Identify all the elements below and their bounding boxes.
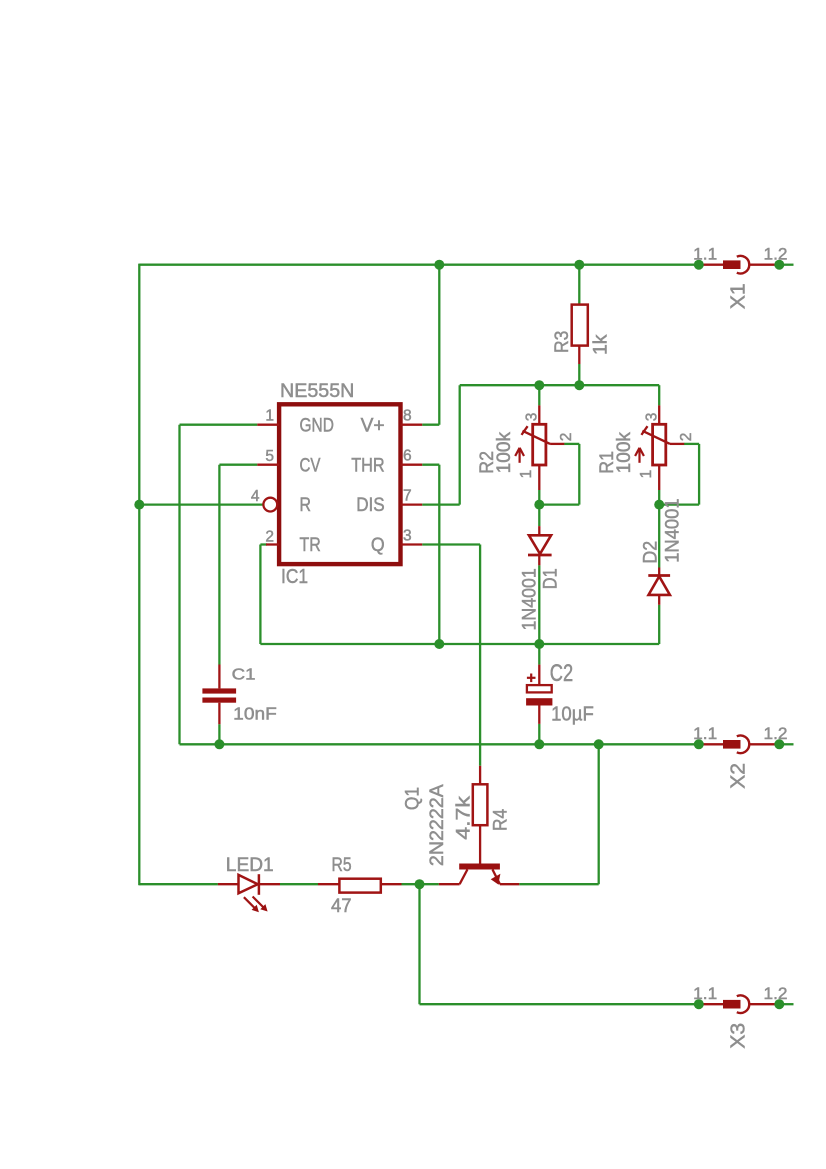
junction ground row / emitter riser bbox=[594, 739, 604, 749]
wire IC pin6 THR down bbox=[422, 464, 439, 466]
svg-text:1: 1 bbox=[265, 408, 274, 425]
svg-text:R3: R3 bbox=[551, 331, 573, 353]
junction ground row / C2 bbox=[534, 739, 544, 749]
svg-text:THR: THR bbox=[351, 454, 385, 476]
svg-text:4.7k: 4.7k bbox=[453, 796, 475, 840]
wire C2 bottom bbox=[538, 724, 540, 744]
svg-text:X1: X1 bbox=[727, 283, 750, 309]
potentiometer R1 body bbox=[653, 424, 666, 465]
svg-text:R: R bbox=[300, 494, 312, 516]
svg-text:3: 3 bbox=[643, 413, 660, 422]
svg-text:C1: C1 bbox=[232, 667, 256, 684]
wire IC pin1 GND to ground rail bbox=[180, 424, 258, 426]
transistor Q1 base bar bbox=[459, 864, 500, 870]
junction TR row / D1-C2 bbox=[534, 639, 544, 649]
svg-text:CV: CV bbox=[300, 454, 321, 476]
junction R3 bottom / R2 pin3 bbox=[534, 380, 544, 390]
wire LED row left bbox=[139, 883, 218, 885]
IC1 pin 1 stub bbox=[257, 424, 279, 426]
Q1 emitter arrow bbox=[491, 874, 501, 885]
C2 bottom plate bbox=[526, 698, 552, 705]
IC1 pin 6 stub bbox=[401, 464, 423, 466]
R4 bottom pin to Q1 base bbox=[479, 825, 481, 863]
X1 junction 1.2 bbox=[774, 260, 784, 270]
svg-text:10µF: 10µF bbox=[551, 704, 594, 726]
capacitor C1 top plate bbox=[202, 688, 236, 693]
svg-text:1.1: 1.1 bbox=[693, 245, 717, 264]
svg-text:NE555N: NE555N bbox=[280, 380, 354, 402]
svg-text:8: 8 bbox=[403, 408, 412, 425]
R2 pin2 stub bbox=[550, 443, 564, 445]
LED1 cathode stub bbox=[259, 883, 280, 885]
wire R3 top bbox=[578, 265, 580, 305]
X3 junction 1.2 bbox=[774, 999, 784, 1009]
X2 pin 1.2 wire bbox=[749, 743, 775, 745]
svg-text:2N2222A: 2N2222A bbox=[426, 784, 448, 866]
X2 wire tail bbox=[784, 743, 794, 745]
wire IC pin7 DIS to junction row bbox=[422, 503, 460, 505]
Q1 emitter lead bbox=[493, 870, 500, 885]
X3 pin pad bbox=[723, 1000, 741, 1009]
wire ground row bbox=[180, 743, 699, 745]
svg-text:TR: TR bbox=[300, 534, 321, 556]
svg-text:1k: 1k bbox=[590, 334, 612, 355]
LED1 emission arrow 1 bbox=[244, 897, 255, 908]
svg-text:R5: R5 bbox=[332, 854, 352, 876]
wire R2 pin1 to junction bbox=[538, 490, 540, 505]
D2 cathode stub bbox=[658, 568, 660, 576]
junction left rail / pin4 R bbox=[134, 500, 144, 510]
svg-text:C2: C2 bbox=[550, 660, 573, 687]
svg-text:6: 6 bbox=[403, 448, 412, 465]
X1 pin 1.2 wire bbox=[749, 264, 775, 266]
X1 wire tail bbox=[784, 264, 794, 266]
svg-text:7: 7 bbox=[403, 488, 412, 505]
wire D2 anode to TR row bbox=[658, 605, 660, 644]
svg-text:47: 47 bbox=[331, 895, 352, 917]
diode D1 triangle bbox=[529, 535, 551, 554]
junction TR row / THR riser bbox=[434, 639, 444, 649]
wire R1 pin2 loop bbox=[684, 443, 699, 445]
wire node to X3 row bbox=[418, 884, 420, 1004]
svg-text:X3: X3 bbox=[727, 1023, 750, 1049]
R2 pin3 stub bbox=[538, 405, 540, 424]
svg-text:2: 2 bbox=[558, 433, 575, 442]
diode D2 triangle bbox=[649, 576, 670, 595]
connector X1 pin 1.1 wire bbox=[703, 264, 723, 266]
svg-text:Q: Q bbox=[371, 534, 385, 556]
wire IC pin8 to top rail bbox=[422, 424, 439, 426]
wire D2 cathode bbox=[658, 505, 660, 568]
wire D1 anode bbox=[538, 505, 540, 526]
resistor R5 body bbox=[339, 879, 380, 893]
LED1 emission arrow 2 bbox=[253, 897, 264, 908]
svg-text:10nF: 10nF bbox=[233, 703, 277, 723]
C1 bottom pin stub bbox=[218, 703, 220, 725]
D1 cathode stub bbox=[538, 555, 540, 565]
C2 top plate outline bbox=[527, 685, 552, 692]
wire R2 pin2 loop bbox=[564, 443, 579, 445]
wire R1 pin3 bbox=[658, 385, 660, 405]
IC1 pin 4 inversion bubble bbox=[263, 498, 277, 512]
wire R3 bottom bbox=[578, 364, 580, 385]
C2 top pin stub bbox=[538, 665, 540, 686]
junction node R5 / Q1 / X3 drop bbox=[415, 879, 425, 889]
svg-text:1: 1 bbox=[638, 470, 655, 479]
svg-text:5: 5 bbox=[265, 448, 274, 465]
svg-text:1.1: 1.1 bbox=[693, 984, 717, 1003]
R1 pin1 stub bbox=[658, 465, 660, 490]
svg-text:GND: GND bbox=[300, 414, 334, 436]
svg-text:4: 4 bbox=[251, 488, 260, 505]
connector X3 pin 1.1 wire bbox=[703, 1003, 723, 1005]
svg-text:V+: V+ bbox=[361, 414, 385, 436]
wire top supply rail bbox=[139, 264, 699, 266]
R2 trim arrow bbox=[518, 448, 520, 463]
svg-text:1.2: 1.2 bbox=[764, 724, 788, 743]
svg-text:1.1: 1.1 bbox=[693, 724, 717, 743]
C2 bottom pin stub bbox=[538, 706, 540, 724]
wire emitter to X2 net bbox=[519, 883, 599, 885]
LED1 anode stub bbox=[218, 883, 239, 885]
svg-text:D2: D2 bbox=[639, 541, 661, 564]
junction R2 wiper / D1 anode bbox=[534, 500, 544, 510]
X3 pin 1.2 wire bbox=[749, 1003, 775, 1005]
wire D1 cathode to TR row bbox=[538, 565, 540, 644]
svg-text:3: 3 bbox=[403, 528, 412, 545]
svg-text:X2: X2 bbox=[727, 763, 750, 789]
svg-text:D1: D1 bbox=[540, 568, 562, 589]
C1 top pin stub bbox=[218, 665, 220, 689]
X2 socket arc bbox=[737, 736, 749, 754]
resistor R3 body bbox=[572, 305, 588, 346]
R3 pin stub bbox=[578, 346, 580, 364]
wire junction row below R3 bbox=[460, 384, 660, 386]
junction ground row / C1 bbox=[214, 739, 224, 749]
wire TR row bbox=[260, 643, 659, 645]
svg-text:LED1: LED1 bbox=[226, 854, 274, 876]
X1 junction 1.1 bbox=[694, 260, 704, 270]
svg-text:100k: 100k bbox=[493, 432, 515, 474]
D2 cathode bar bbox=[648, 574, 670, 577]
wire LED to R5 bbox=[280, 883, 318, 885]
wire R2 pin3 bbox=[538, 385, 540, 405]
D2 anode stub bbox=[658, 595, 660, 605]
junction R1 wiper / D2 cathode bbox=[654, 500, 664, 510]
wire IC pin2 TR down bbox=[260, 543, 267, 545]
R2 pin1 stub bbox=[538, 465, 540, 490]
svg-text:1: 1 bbox=[518, 470, 535, 479]
svg-text:IC1: IC1 bbox=[281, 566, 308, 588]
Q1 collector lead bbox=[460, 870, 468, 885]
IC1 pin 8 stub bbox=[401, 424, 423, 426]
wire R5 to node bbox=[402, 883, 439, 885]
X3 socket arc bbox=[737, 995, 749, 1013]
R5 left stub bbox=[318, 883, 339, 885]
wire left rail bbox=[138, 264, 140, 886]
IC1 pin 3 stub bbox=[401, 543, 423, 545]
C1 bottom plate bbox=[202, 698, 236, 703]
R1 wiper arrow bbox=[642, 431, 670, 444]
X2 pin pad bbox=[723, 740, 741, 749]
junction node below R3 bbox=[574, 380, 584, 390]
wire IC pin3 Q to R4 bbox=[422, 543, 480, 545]
wire R1 pin1 to junction bbox=[658, 490, 660, 505]
R1 trim arrow bbox=[638, 448, 640, 463]
R1 pin2 stub bbox=[670, 443, 684, 445]
R5 right stub bbox=[381, 883, 402, 885]
IC1 pin 5 stub bbox=[257, 464, 279, 466]
wire IC pin4 R to left rail bbox=[139, 503, 263, 505]
wire THR junction down to TR row bbox=[438, 505, 440, 644]
svg-text:3: 3 bbox=[524, 413, 541, 422]
svg-text:1N4001: 1N4001 bbox=[661, 498, 683, 562]
svg-text:DIS: DIS bbox=[356, 494, 385, 516]
X1 pin pad bbox=[723, 260, 741, 269]
svg-text:R4: R4 bbox=[490, 809, 512, 831]
X2 junction 1.2 bbox=[774, 739, 784, 749]
svg-text:1.2: 1.2 bbox=[764, 984, 788, 1003]
R1 pin3 stub bbox=[658, 405, 660, 424]
potentiometer R2 body bbox=[533, 424, 546, 465]
connector X2 pin 1.1 wire bbox=[703, 743, 723, 745]
IC IC1 NE555N timer body bbox=[279, 404, 400, 564]
X1 socket arc bbox=[737, 256, 749, 274]
wire C2 top bbox=[538, 644, 540, 665]
resistor R4 body bbox=[473, 784, 488, 825]
svg-text:100k: 100k bbox=[613, 432, 635, 474]
junction V+ rail / R3 bbox=[574, 260, 584, 270]
X3 wire tail bbox=[784, 1003, 794, 1005]
X3 junction 1.1 bbox=[694, 999, 704, 1009]
IC1 pin 2 stub bbox=[266, 543, 279, 545]
R4 top pin stub bbox=[479, 766, 481, 785]
wire C1 bottom bbox=[218, 724, 220, 744]
capacitor C2 plus sign bbox=[527, 677, 536, 679]
svg-text:Q1: Q1 bbox=[402, 787, 424, 810]
IC1 pin 7 stub bbox=[401, 503, 423, 505]
svg-text:1N4001: 1N4001 bbox=[519, 568, 541, 630]
svg-text:2: 2 bbox=[265, 528, 274, 545]
junction V+ rail / pin8 riser bbox=[434, 260, 444, 270]
wire IC pin5 CV to C1 bbox=[219, 464, 257, 466]
D1 cathode bar bbox=[528, 554, 552, 557]
LED LED1 triangle bbox=[239, 875, 258, 893]
R2 wiper arrow bbox=[523, 431, 551, 444]
svg-text:1.2: 1.2 bbox=[764, 245, 788, 264]
LED1 cathode bar bbox=[258, 874, 261, 895]
svg-text:2: 2 bbox=[678, 433, 695, 442]
X2 junction 1.1 bbox=[694, 739, 704, 749]
D1 anode stub bbox=[538, 526, 540, 535]
